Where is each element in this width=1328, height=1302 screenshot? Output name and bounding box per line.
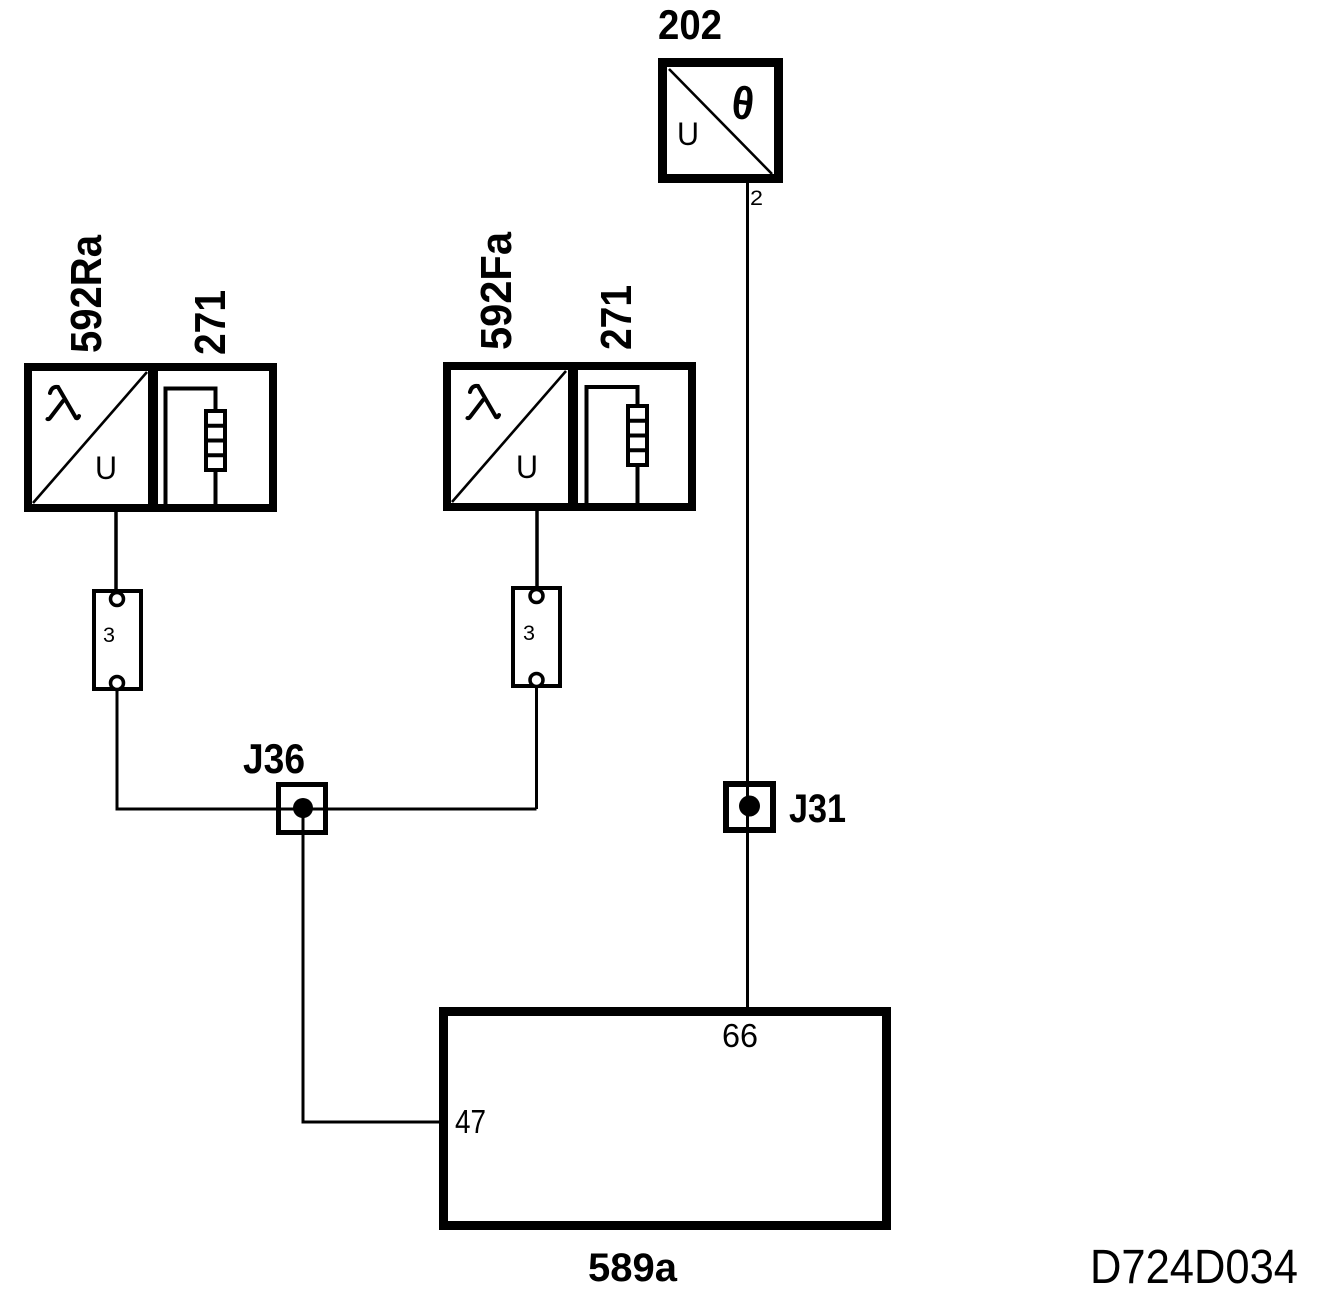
- label 592Fa: [472, 232, 521, 350]
- control unit 589a: [444, 1012, 887, 1226]
- svg-text:U: U: [677, 116, 699, 152]
- sensor 202 (temperature sender): [663, 63, 779, 179]
- lambda sensor 592Ra box: [28, 367, 273, 508]
- lambda sensor 592Fa box: [447, 366, 692, 507]
- svg-text:3: 3: [103, 624, 115, 647]
- svg-text:J31: J31: [789, 787, 846, 831]
- svg-text:589a: 589a: [588, 1246, 678, 1290]
- wire: 592Fa down to connector: [535, 507, 539, 590]
- svg-text:2: 2: [750, 187, 763, 210]
- wire: 592Ra down to connector: [114, 508, 118, 593]
- drawing number D724D034: [1090, 1241, 1298, 1294]
- label 202: [658, 1, 722, 48]
- wire: 202 pin 2 down through J31 to 589a pin 66: [746, 183, 749, 1011]
- svg-text:271: 271: [186, 290, 235, 355]
- label 271 (right): [592, 285, 641, 350]
- wire: left connector down and right through J36 to right connector: [117, 689, 537, 809]
- svg-text:66: 66: [722, 1017, 758, 1054]
- svg-text:D724D034: D724D034: [1090, 1241, 1298, 1294]
- wire: J36 down and right to 589a pin 47: [303, 808, 443, 1122]
- heater element 271 (right): [587, 387, 648, 503]
- svg-text:3: 3: [523, 622, 535, 645]
- connector 3 (right): [513, 588, 560, 687]
- label 589a: [588, 1246, 678, 1290]
- label 271 (left): [186, 290, 235, 355]
- label J31: [789, 787, 846, 831]
- svg-text:271: 271: [592, 285, 641, 350]
- junction J31: [726, 784, 773, 830]
- svg-text:U: U: [95, 450, 117, 486]
- svg-text:47: 47: [455, 1103, 486, 1140]
- junction J36: [279, 785, 326, 833]
- wire: right connector down to junction wire: [535, 686, 538, 809]
- svg-text:U: U: [516, 449, 538, 485]
- heater element 271 (left): [166, 389, 226, 505]
- svg-text:592Ra: 592Ra: [62, 235, 111, 353]
- label J36: [243, 735, 305, 782]
- connector 3 (left): [94, 591, 141, 690]
- svg-text:J36: J36: [243, 735, 305, 782]
- pin label 66: [722, 1017, 758, 1054]
- pin label 47: [455, 1103, 486, 1140]
- label 592Ra: [62, 235, 111, 353]
- svg-text:592Fa: 592Fa: [472, 232, 521, 350]
- svg-text:202: 202: [658, 1, 722, 48]
- pin label 2: [750, 187, 763, 210]
